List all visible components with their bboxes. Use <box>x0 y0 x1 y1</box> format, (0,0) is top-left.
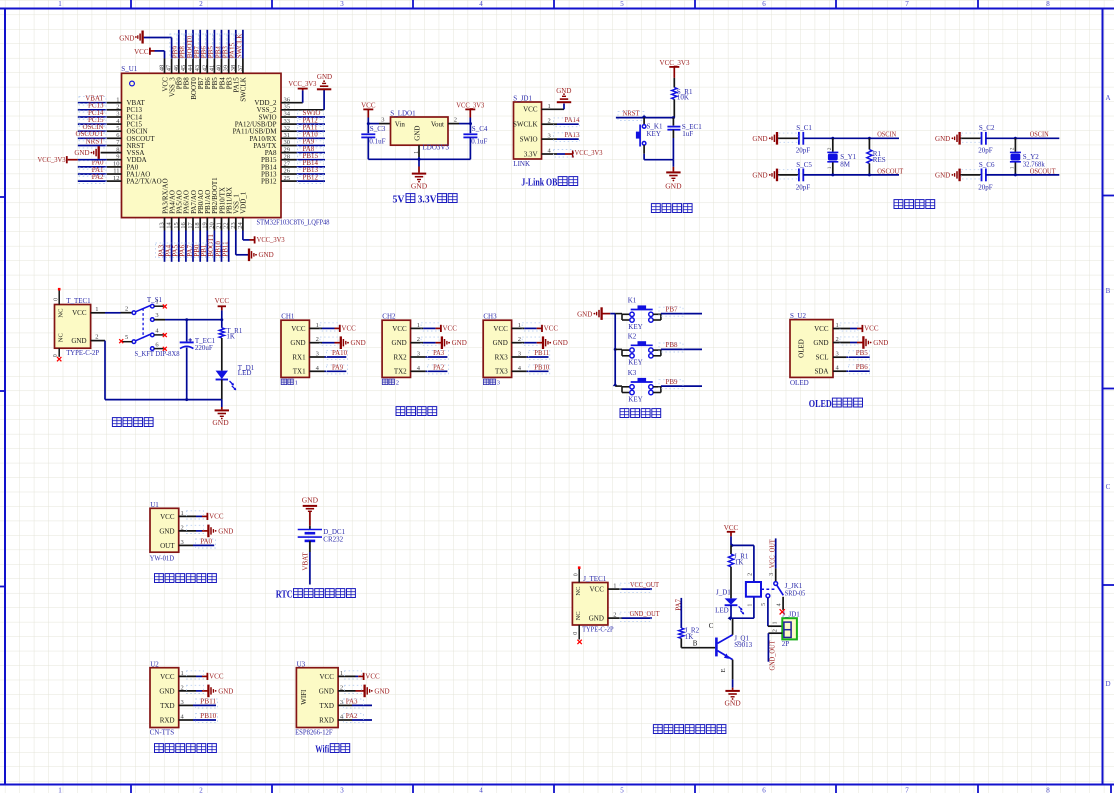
wire T_TEC1 pin 2 to rail <box>91 341 105 400</box>
svg-text:5V: 5V <box>393 195 406 206</box>
connector S_JD1 body <box>513 102 542 159</box>
switch T_S1 pole 2 <box>132 333 154 343</box>
svg-text:GND: GND <box>74 149 89 157</box>
capacitor S_C3 labels <box>369 125 385 146</box>
U3 pin numbers <box>340 670 344 721</box>
svg-text:J-Link OB: J-Link OB <box>521 178 557 189</box>
svg-text:2: 2 <box>1009 147 1015 150</box>
net label PA10 <box>298 131 324 141</box>
svg-text:GND: GND <box>119 35 134 43</box>
U2 pin numbers <box>181 670 185 721</box>
svg-text:2: 2 <box>747 573 753 576</box>
connector J_TEC1 body <box>572 583 608 626</box>
net label PB12 <box>298 173 324 183</box>
wire U2 pin 4 <box>179 719 216 721</box>
wire OSCIN <box>803 137 899 140</box>
relay link dashed <box>761 588 775 590</box>
power port VCC top <box>134 48 150 57</box>
svg-text:PA2/TX/AO: PA2/TX/AO <box>127 178 162 186</box>
svg-text:GND: GND <box>317 73 332 81</box>
wire key ground rail <box>610 314 617 387</box>
wire to U1 pin 2 <box>78 109 122 111</box>
svg-text:PA0: PA0 <box>200 537 212 545</box>
wire U1 top pin 43 <box>199 30 201 74</box>
capacitor S_C5 <box>778 169 803 182</box>
ground above JD1 pin 1 <box>556 87 571 102</box>
power port VCC for LDO <box>361 101 376 123</box>
wire key output PB9 <box>661 385 702 387</box>
svg-text:K2: K2 <box>628 333 637 341</box>
svg-text:CH3: CH3 <box>483 312 497 320</box>
net label PB13 <box>298 166 324 176</box>
svg-text:2: 2 <box>199 0 203 8</box>
svg-text:1: 1 <box>827 166 833 169</box>
svg-text:LDO3V3: LDO3V3 <box>423 143 450 151</box>
svg-text:PB11: PB11 <box>222 241 230 257</box>
wire VCC to LDO1 Vin <box>367 122 391 125</box>
svg-text:C: C <box>709 622 714 630</box>
svg-text:PA2: PA2 <box>92 173 104 181</box>
svg-text:1: 1 <box>773 622 779 625</box>
capacitor S_C6 <box>961 169 986 182</box>
svg-text:VCC: VCC <box>341 325 356 333</box>
title reset circuit <box>651 204 660 213</box>
svg-text:3: 3 <box>155 312 158 319</box>
svg-text:J_JD1: J_JD1 <box>782 611 800 619</box>
net label PA3 <box>156 243 166 258</box>
svg-text:1: 1 <box>295 380 298 387</box>
svg-text:RX2: RX2 <box>393 353 407 361</box>
svg-text:SWCLK: SWCLK <box>236 34 244 59</box>
T_TEC1 NC pin bottom <box>53 348 62 361</box>
wire to U1 pin 10 <box>78 166 122 168</box>
K1 labels KEY <box>628 297 643 331</box>
net label PB0 <box>191 243 201 258</box>
capacitor S_C2 <box>961 132 986 145</box>
svg-text:U2: U2 <box>150 660 159 668</box>
svg-text:7: 7 <box>905 0 909 8</box>
svg-text:1: 1 <box>1009 166 1015 169</box>
relay common contact <box>774 582 778 586</box>
svg-text:VCC: VCC <box>523 106 538 114</box>
svg-text:CN-TTS: CN-TTS <box>150 729 175 737</box>
voice module U2 body <box>150 668 179 728</box>
title J-Link OB interface <box>521 177 577 189</box>
svg-text:T_TEC1: T_TEC1 <box>66 297 91 305</box>
wire VCC_OUT to relay common <box>775 538 777 581</box>
crystal labels <box>840 153 856 169</box>
power port VCC at U3 <box>345 671 381 681</box>
svg-text:VCC: VCC <box>864 325 879 333</box>
ground at crystal top <box>752 132 777 145</box>
svg-text:TXD: TXD <box>160 702 174 710</box>
svg-text:CR232: CR232 <box>323 535 343 543</box>
ground at U1 <box>187 525 234 538</box>
wire U3 pin 1 to VCC <box>338 675 363 677</box>
crystal labels <box>1023 153 1045 169</box>
svg-text:6: 6 <box>762 0 766 8</box>
svg-text:VCC: VCC <box>814 325 829 333</box>
svg-text:VCC: VCC <box>209 673 224 681</box>
wire LED to rail <box>221 380 223 400</box>
svg-text:RXD: RXD <box>319 716 334 724</box>
JD1 pin 2 wire GND_OUT <box>768 633 782 662</box>
capacitor bottom labels <box>779 161 813 191</box>
svg-text:NC: NC <box>57 333 64 342</box>
svg-text:GND: GND <box>589 614 604 622</box>
net label OSCOUT <box>75 130 106 141</box>
svg-text:K1: K1 <box>628 297 637 305</box>
wire OSCOUT <box>803 173 899 176</box>
svg-text:0: 0 <box>53 354 59 357</box>
ground at U2 <box>187 685 234 698</box>
svg-text:U3: U3 <box>297 660 306 668</box>
ground at crystal top <box>935 132 960 145</box>
CH3 value label <box>483 379 500 387</box>
svg-text:GND: GND <box>553 339 568 347</box>
wire CH3 pin 2 to GND <box>512 342 542 344</box>
wire U1 bottom pin 19 <box>206 218 208 262</box>
K3 labels KEY <box>628 369 643 403</box>
net label VCC_OUT <box>620 581 660 593</box>
svg-text:3: 3 <box>381 116 384 123</box>
frame column ticks bottom <box>131 785 1111 793</box>
svg-text:OSCOUT: OSCOUT <box>1030 167 1057 175</box>
svg-text:VCC_3V3: VCC_3V3 <box>456 101 484 109</box>
J_R2 labels 1K <box>685 626 700 640</box>
net label PA6 <box>177 243 187 258</box>
net label PB7 <box>659 305 683 316</box>
svg-text:8M: 8M <box>840 160 851 168</box>
title crystal circuit <box>894 200 903 209</box>
S_JD1 pin numbers <box>548 103 552 155</box>
wire U1 top pin 45 <box>185 30 187 74</box>
ground <box>421 336 467 349</box>
svg-text:GND_OUT: GND_OUT <box>769 640 777 671</box>
svg-text:1: 1 <box>613 582 616 589</box>
sensor module U1 body <box>150 508 179 552</box>
wire CH3 pin 1 to VCC <box>512 327 542 329</box>
svg-text:OLED: OLED <box>790 379 809 387</box>
svg-text:B: B <box>1106 287 1111 295</box>
svg-text:KEY: KEY <box>628 359 642 367</box>
net label PB11 <box>196 697 218 708</box>
wire to U1 pin 7 <box>78 145 122 147</box>
wire T_R1 to LED <box>221 338 223 371</box>
MCU right pin names <box>233 99 278 185</box>
net label PA9 <box>327 363 348 374</box>
wire CH2 pin 4 <box>411 370 448 372</box>
wire to U1 pin 6 <box>78 137 122 139</box>
wire U1 bottom pin 15 <box>178 218 180 262</box>
svg-text:20pF: 20pF <box>978 147 993 155</box>
svg-text:J_D1: J_D1 <box>716 589 731 597</box>
S_U2 pin numbers <box>836 322 840 372</box>
ground above pin 35 <box>317 73 332 89</box>
J_D1 labels LED <box>715 589 731 615</box>
svg-text:6: 6 <box>762 787 766 793</box>
wire CH3 pin 3 <box>512 356 549 358</box>
svg-text:GND: GND <box>752 135 767 143</box>
svg-text:GND: GND <box>935 135 950 143</box>
svg-text:GND: GND <box>493 339 508 347</box>
net label PB11 <box>220 241 230 258</box>
title power supply circuit <box>112 418 121 427</box>
svg-text:PA3: PA3 <box>433 349 444 357</box>
transistor J_Q1 S9013 <box>716 635 732 660</box>
MCU right pin numbers 36-25 <box>284 96 291 181</box>
svg-text:0: 0 <box>54 298 60 301</box>
svg-text:OSCOUT: OSCOUT <box>877 167 904 175</box>
svg-text:J_TEC1: J_TEC1 <box>583 575 606 583</box>
ground below LDO <box>411 159 428 190</box>
svg-text:8: 8 <box>1046 787 1050 793</box>
CH1 pin numbers <box>316 322 320 372</box>
T_S1 pin 4 stub <box>154 327 167 337</box>
wire power bottom rail <box>105 398 222 401</box>
net label PA5 <box>170 243 180 258</box>
wire from U1 pin 27 <box>281 166 325 168</box>
svg-text:VCC: VCC <box>209 513 224 521</box>
wire to U1 pin 8 VSSA <box>101 152 122 154</box>
ground below reset circuit <box>665 160 682 191</box>
svg-text:STM32F103C8T6_LQFP48: STM32F103C8T6_LQFP48 <box>257 218 330 226</box>
svg-text:VCC: VCC <box>361 101 376 109</box>
S_K1 labels KEY <box>647 123 663 138</box>
wire CH2 pin 1 to VCC <box>411 327 441 329</box>
power port VCC_3V3 right of LDO <box>456 101 484 123</box>
svg-text:2: 2 <box>199 787 203 793</box>
svg-text:GND: GND <box>873 339 888 347</box>
net label PA1 <box>79 166 106 177</box>
svg-text:3.3V: 3.3V <box>418 195 438 206</box>
svg-text:VCC_3V3: VCC_3V3 <box>575 149 603 157</box>
wire from U1 pin 28 <box>281 159 325 161</box>
wire from U1 pin 25 <box>281 180 325 182</box>
net label PA0 <box>196 537 216 548</box>
wire U1 pin 35 to GND <box>281 89 324 110</box>
title 5V to 3.3V circuit <box>393 194 458 206</box>
wire JD1 pin 4 to VCC_3V3 <box>542 153 573 155</box>
MCU bottom pin names <box>161 177 247 214</box>
wire U1 pin 1 to VCC <box>179 515 208 517</box>
svg-text:NRST: NRST <box>86 137 105 145</box>
net label NRST <box>79 137 106 148</box>
svg-text:LED: LED <box>238 369 252 377</box>
capacitor S_C3 <box>361 124 375 160</box>
svg-text:OLED: OLED <box>809 399 832 410</box>
svg-text:GND: GND <box>752 172 767 180</box>
svg-text:5: 5 <box>125 334 128 341</box>
wire U1 bottom pin 18 <box>199 218 201 262</box>
relay pin 4 wire unconnected <box>780 597 785 615</box>
svg-text:2P: 2P <box>782 640 790 648</box>
svg-text:GND: GND <box>218 527 233 535</box>
wire from U1 pin 31 <box>281 137 325 139</box>
wire U3 pin 2 to GND <box>338 690 364 692</box>
resistor T_R1 <box>219 328 224 338</box>
wire to U1 pin 12 <box>78 180 122 182</box>
svg-text:RTC: RTC <box>276 590 293 601</box>
svg-text:TX3: TX3 <box>495 368 508 376</box>
T_EC1 labels 220uF <box>195 337 216 352</box>
wire T_TEC1 pin 1 to switch <box>91 312 133 314</box>
net label PB1 <box>198 243 208 258</box>
K2 labels KEY <box>628 333 643 367</box>
svg-text:1uF: 1uF <box>682 130 693 138</box>
svg-text:GND: GND <box>452 339 467 347</box>
title OLED display <box>809 398 863 410</box>
svg-text:TYPE-C-2P: TYPE-C-2P <box>66 349 99 357</box>
svg-text:20pF: 20pF <box>978 183 993 191</box>
net label PB5 <box>849 349 870 360</box>
relay J_JK1 coil <box>746 582 761 597</box>
wire U1 bottom pin 20 <box>213 218 215 262</box>
svg-text:CH2: CH2 <box>382 312 396 320</box>
svg-text:S_U1: S_U1 <box>121 65 137 73</box>
net label PA13 <box>554 131 580 142</box>
T_S1 pin 5 stub <box>119 334 132 343</box>
net label GND_OUT <box>620 610 660 622</box>
wire key output PB8 <box>661 348 702 350</box>
net label PC15 <box>79 116 106 127</box>
title relay control circuit <box>653 725 662 734</box>
net label PA9 <box>298 138 324 148</box>
svg-text:RX3: RX3 <box>495 353 509 361</box>
wire U1 pin 24 VDD_1 to VCC_3V3 <box>243 218 254 240</box>
T_R1 labels 1K <box>226 327 242 340</box>
svg-text:A: A <box>1105 94 1110 102</box>
relay pin 5 wire to JD1 pin 1 <box>768 598 782 626</box>
wire J_TEC1 pin 1 VCC_OUT <box>608 588 652 590</box>
title key circuit <box>620 409 629 418</box>
wire U2 pin 1 to VCC <box>179 675 208 677</box>
svg-text:VCC_3V3: VCC_3V3 <box>660 59 690 67</box>
switch T_S1 pole 1 <box>132 304 154 314</box>
svg-text:VCC_OUT: VCC_OUT <box>630 581 660 589</box>
svg-text:3: 3 <box>497 380 500 387</box>
T_S1 pin 3 contact and wire <box>151 312 222 321</box>
voltage regulator S_LDO1 body <box>391 117 449 145</box>
net label PB8 <box>177 34 187 58</box>
svg-text:KEY: KEY <box>647 130 661 138</box>
wire U1 pin 3 <box>179 544 215 546</box>
svg-text:GND: GND <box>218 687 233 695</box>
wire U1 bottom pin 13 <box>164 218 166 262</box>
svg-text:VCC: VCC <box>72 309 87 317</box>
svg-text:VCC_3V3: VCC_3V3 <box>257 236 285 244</box>
svg-text:TXD: TXD <box>320 702 334 710</box>
svg-text:VCC: VCC <box>392 325 407 333</box>
resistor S_R1 <box>672 88 677 100</box>
wire U1 top pin 38 <box>235 30 237 74</box>
net label PB5 <box>205 34 215 58</box>
net label PB10 <box>213 241 223 258</box>
svg-text:S9013: S9013 <box>734 641 752 649</box>
wire bottom rail of LDO block <box>368 157 470 161</box>
net label SWIO <box>298 109 324 119</box>
svg-text:S_C2: S_C2 <box>979 124 995 132</box>
connector J_JD1 body <box>782 618 797 639</box>
svg-text:GND: GND <box>302 496 319 505</box>
wire U1 top pin 37 <box>242 30 244 74</box>
frame column numbers bottom <box>58 787 1050 793</box>
ground at Q1 emitter <box>724 688 741 708</box>
svg-text:220uF: 220uF <box>195 344 213 352</box>
net label SWCLK <box>234 34 244 59</box>
svg-text:SWCLK: SWCLK <box>513 121 538 129</box>
svg-text:S_C6: S_C6 <box>979 161 995 169</box>
svg-text:TYPE-C-2P: TYPE-C-2P <box>582 626 614 634</box>
wire to U1 pin 3 <box>78 116 122 118</box>
wire VCC_3V3 to S_R1 <box>673 78 675 88</box>
ground power block <box>212 400 229 428</box>
net label BOOT1 <box>205 234 215 258</box>
power port VCC at U1 <box>187 511 224 521</box>
wire from U1 pin 30 <box>281 145 325 147</box>
wire U3 pin 3 <box>338 704 372 706</box>
resistor J_R2 <box>679 628 684 638</box>
svg-text:PB8: PB8 <box>666 341 679 349</box>
wire S_R1 to NRST node <box>673 99 675 117</box>
svg-text:D: D <box>1105 680 1110 688</box>
net label PB4 <box>213 34 223 58</box>
resistor R1 RES <box>867 138 872 175</box>
wire J_TEC1 pin 2 GND_OUT <box>608 617 652 619</box>
wire U1 top pin 44 <box>192 30 194 74</box>
svg-text:GND: GND <box>414 126 422 141</box>
net label PB8 <box>659 341 683 352</box>
svg-text:0: 0 <box>574 573 580 576</box>
svg-text:VCC: VCC <box>160 513 175 521</box>
capacitor bottom labels <box>961 161 995 191</box>
wire JD1 pin 2 <box>542 123 579 125</box>
wire U2 pin 2 to GND <box>179 690 208 692</box>
ground above battery <box>302 496 319 512</box>
net label PB10 <box>196 712 218 723</box>
svg-text:PB9: PB9 <box>666 378 679 386</box>
wire U1 top pin 46 <box>178 30 180 74</box>
svg-text:U1: U1 <box>150 501 159 509</box>
svg-text:2: 2 <box>827 147 833 150</box>
wire VCC to J_R1 <box>730 545 732 554</box>
svg-text:GND: GND <box>724 698 741 707</box>
svg-text:10K: 10K <box>677 93 689 101</box>
pushbutton K1 <box>615 306 661 322</box>
svg-text:VCC_3V3: VCC_3V3 <box>288 80 316 88</box>
T_S1 pin 1 stub <box>154 299 167 309</box>
svg-text:K3: K3 <box>628 369 637 377</box>
net label PB6 <box>849 363 870 374</box>
svg-text:VBAT: VBAT <box>301 552 309 571</box>
wire S_U2 pin 1 to VCC <box>833 328 862 330</box>
wire from U1 pin 29 <box>281 152 325 154</box>
capacitor S_C1 <box>778 132 803 145</box>
svg-text:VCC: VCC <box>443 325 458 333</box>
net label OSCIN <box>79 123 106 134</box>
relay contact 5 <box>766 594 770 598</box>
S_R1 labels 10K <box>677 88 693 102</box>
svg-text:1: 1 <box>414 151 420 154</box>
net label PB15 <box>298 152 324 162</box>
svg-text:S_C1: S_C1 <box>796 124 812 132</box>
svg-text:OUT: OUT <box>160 542 175 550</box>
net label PA2 <box>79 173 106 184</box>
connector T_TEC1 body <box>55 305 91 349</box>
svg-text:SWCLK: SWCLK <box>240 77 248 102</box>
ground at crystal bottom <box>935 169 960 182</box>
svg-text:GND: GND <box>71 337 86 345</box>
